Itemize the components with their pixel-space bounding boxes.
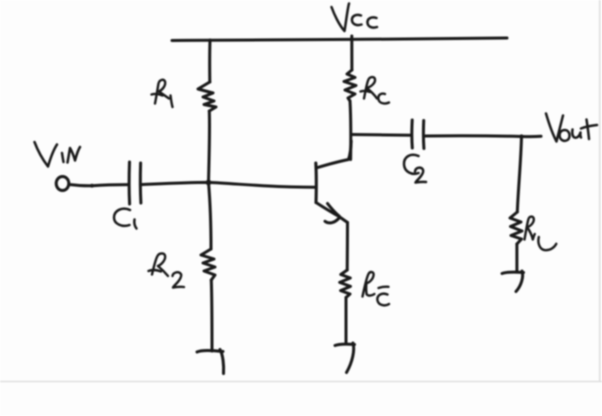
- node junction Vout branch: [519, 134, 523, 138]
- capacitor C2 right plate: [422, 121, 425, 149]
- resistor R1: [198, 82, 216, 111]
- wire Rc to collector: [349, 101, 353, 160]
- transistor Q1 base bar: [314, 163, 318, 203]
- label R1: [152, 80, 173, 107]
- label R2: [149, 253, 185, 287]
- resistor Rc: [344, 70, 356, 101]
- node input terminal circle: [56, 177, 69, 191]
- ground RE: [335, 344, 355, 345]
- junction dot on input wire: [90, 184, 94, 188]
- label RE: [363, 272, 390, 305]
- wire Vcc rail to Rc: [350, 36, 353, 70]
- label C2: [404, 155, 426, 183]
- transistor Q1 emitter arrow swoosh: [325, 218, 339, 223]
- wire Vcc rail: [172, 38, 507, 41]
- node junction R1/R2/base: [206, 180, 212, 186]
- wire C1 to base: [141, 182, 316, 187]
- wire input to C1: [69, 185, 129, 186]
- label Vin: [35, 142, 81, 167]
- wire base node to R2: [209, 183, 212, 250]
- ground RL: [502, 272, 524, 273]
- wire R1 bottom to base node: [209, 111, 210, 182]
- wire RE to ground: [345, 298, 348, 344]
- wire RL to ground: [515, 244, 518, 271]
- label C1: [114, 209, 137, 229]
- wire R2 to ground: [210, 280, 214, 351]
- resistor R2: [201, 249, 215, 280]
- resistor RL: [510, 212, 522, 244]
- label Vcc: [332, 4, 378, 32]
- label Rc: [361, 77, 390, 103]
- wire emitter to RE: [346, 223, 349, 271]
- resistor RE: [340, 270, 351, 298]
- transistor Q1 emitter lead: [316, 203, 348, 223]
- capacitor C2 left plate: [410, 120, 413, 148]
- wire Vout node down to RL: [517, 137, 521, 212]
- transistor Q1 emitter arrow barb: [328, 204, 340, 217]
- label Vout: [546, 114, 597, 142]
- transistor Q1 collector lead: [316, 141, 351, 168]
- capacitor C1 left plate: [128, 162, 131, 204]
- wire R1 top (rail to R1): [208, 40, 211, 82]
- wire collector node to C2: [352, 133, 412, 137]
- capacitor C1 right plate: [139, 163, 143, 203]
- canvas border bottom: [0, 381, 602, 383]
- ground R2: [197, 350, 223, 352]
- label RL: [525, 217, 557, 251]
- canvas border right: [599, 0, 601, 381]
- wire C2 to Vout: [424, 134, 541, 138]
